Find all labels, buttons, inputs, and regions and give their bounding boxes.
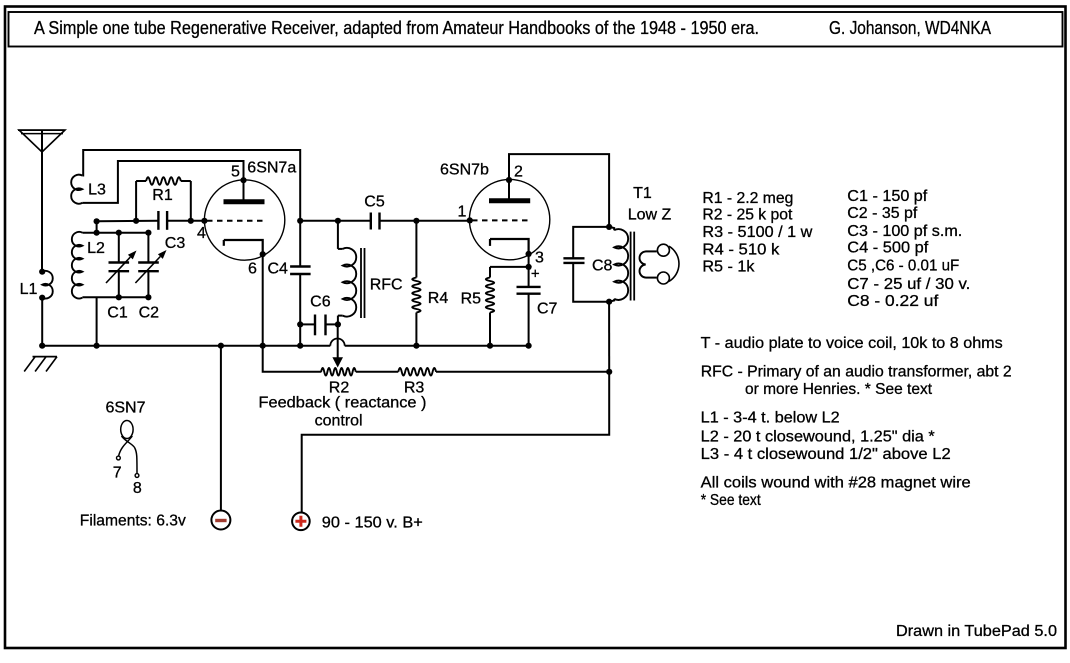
svg-text:C4: C4 [267, 260, 288, 277]
svg-text:RFC - Primary of an audio tran: RFC - Primary of an audio transformer, a… [701, 363, 1012, 380]
svg-text:or more Henries. * See text: or more Henries. * See text [745, 381, 933, 398]
svg-text:R4 - 510 k: R4 - 510 k [702, 241, 780, 258]
svg-text:Feedback ( reactance ): Feedback ( reactance ) [259, 394, 427, 411]
svg-text:C2: C2 [139, 305, 160, 322]
svg-text:3: 3 [535, 249, 544, 266]
svg-text:R3 - 5100 / 1 w: R3 - 5100 / 1 w [702, 224, 812, 241]
svg-text:C7 - 25 uf / 30 v.: C7 - 25 uf / 30 v. [847, 276, 970, 293]
svg-text:L1: L1 [20, 281, 38, 298]
svg-text:6SN7a: 6SN7a [247, 160, 296, 177]
svg-text:C2 - 35 pf: C2 - 35 pf [847, 205, 918, 222]
svg-text:5: 5 [231, 164, 240, 181]
svg-text:1: 1 [458, 204, 467, 221]
svg-text:L2 - 20 t closewound, 1.25" di: L2 - 20 t closewound, 1.25" dia * [701, 428, 935, 445]
svg-text:G. Johanson, WD4NKA: G. Johanson, WD4NKA [829, 18, 991, 38]
svg-text:Drawn in TubePad 5.0: Drawn in TubePad 5.0 [896, 623, 1057, 640]
svg-text:6: 6 [248, 260, 257, 277]
svg-text:L3 - 4 t closewound 1/2" above: L3 - 4 t closewound 1/2" above L2 [701, 446, 951, 463]
svg-text:C1: C1 [107, 305, 128, 322]
svg-text:C5: C5 [364, 193, 385, 210]
svg-text:* See text: * See text [701, 492, 761, 509]
svg-text:C3 - 100 pf s.m.: C3 - 100 pf s.m. [847, 223, 962, 240]
svg-text:8: 8 [133, 480, 142, 497]
svg-text:R4: R4 [428, 290, 449, 307]
svg-text:C1 - 150 pf: C1 - 150 pf [847, 188, 928, 205]
svg-text:L2: L2 [87, 240, 105, 257]
svg-text:RFC: RFC [370, 276, 403, 293]
svg-text:L3: L3 [88, 181, 106, 198]
svg-text:7: 7 [113, 464, 122, 481]
svg-text:R5 - 1k: R5 - 1k [702, 258, 755, 275]
svg-text:R1 - 2.2 meg: R1 - 2.2 meg [702, 190, 793, 207]
svg-text:All coils wound with #28 magne: All coils wound with #28 magnet wire [701, 475, 971, 492]
svg-text:C4 - 500 pf: C4 - 500 pf [847, 240, 929, 257]
svg-text:Low Z: Low Z [628, 206, 672, 223]
svg-text:C3: C3 [165, 235, 186, 252]
svg-text:C6: C6 [310, 293, 331, 310]
svg-text:Filaments: 6.3v: Filaments: 6.3v [80, 513, 186, 530]
svg-text:L1 - 3-4 t. below L2: L1 - 3-4 t. below L2 [701, 410, 840, 427]
svg-text:A Simple one tube Regenerative: A Simple one tube Regenerative Receiver,… [34, 18, 759, 38]
svg-text:2: 2 [514, 163, 523, 180]
svg-text:C5 ,C6 - 0.01 uF: C5 ,C6 - 0.01 uF [847, 257, 959, 274]
svg-text:T - audio plate to voice coil,: T - audio plate to voice coil, 10k to 8 … [701, 335, 1003, 352]
svg-text:R5: R5 [461, 291, 482, 308]
svg-text:90 - 150 v. B+: 90 - 150 v. B+ [322, 514, 423, 531]
svg-text:C7: C7 [537, 300, 558, 317]
svg-text:T1: T1 [633, 185, 652, 202]
svg-text:6SN7b: 6SN7b [440, 162, 489, 179]
svg-text:R1: R1 [152, 187, 173, 204]
svg-text:+: + [531, 266, 540, 283]
svg-text:C8: C8 [592, 257, 613, 274]
svg-text:6SN7: 6SN7 [105, 399, 145, 416]
svg-text:C8 - 0.22 uf: C8 - 0.22 uf [847, 293, 939, 310]
svg-text:control: control [315, 412, 363, 429]
svg-text:R2 - 25 k pot: R2 - 25 k pot [702, 207, 793, 224]
